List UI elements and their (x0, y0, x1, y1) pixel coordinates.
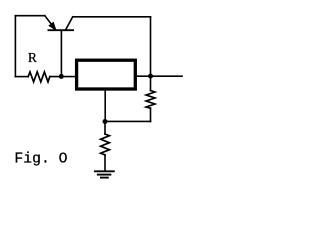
wire right resistor bottom (150, 108, 152, 121)
wire base lead (60, 31, 62, 77)
wire junction B down (104, 121, 106, 134)
box U1 (77, 60, 136, 89)
wire box bottom lead (104, 91, 106, 122)
wire top-right horizontal (73, 16, 151, 18)
resistor right zigzag (146, 91, 155, 109)
node junction dot base (59, 74, 64, 79)
svg-text:Fig. O: Fig. O (14, 152, 67, 168)
wire bottom-left horizontal (15, 76, 28, 78)
wire top-left horizontal (15, 15, 44, 17)
ground (95, 171, 114, 177)
resistor bottom zigzag (101, 134, 110, 155)
wire to ground (104, 155, 106, 171)
wire output to right (137, 75, 182, 77)
svg-text:R: R (28, 50, 38, 65)
transistor Q1 emitter arrowhead (49, 23, 56, 30)
transistor Q1 collector lead (66, 17, 73, 30)
wire right vertical (150, 17, 152, 91)
transistor Q1 base bar (49, 29, 74, 31)
node junction dot right (148, 74, 153, 79)
wire left vertical (14, 16, 16, 77)
transistor Q1 emitter lead (45, 16, 52, 24)
wire bottom horizontal (105, 120, 151, 122)
wire resistor R to box (50, 76, 75, 78)
node junction dot bottom (103, 119, 108, 124)
resistor R zigzag (28, 72, 50, 82)
